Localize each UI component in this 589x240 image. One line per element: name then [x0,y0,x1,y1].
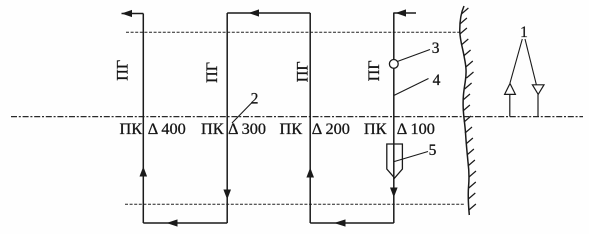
svg-text:ПК: ПК [364,119,387,138]
svg-text:2: 2 [251,91,259,108]
svg-text:4: 4 [433,72,441,89]
svg-text:5: 5 [429,142,437,159]
svg-text:ПК: ПК [201,119,224,138]
svg-text:1: 1 [520,24,528,41]
svg-text:Δ 300: Δ 300 [228,119,266,138]
svg-text:ПГ: ПГ [294,61,311,82]
svg-text:ПК: ПК [280,119,303,138]
svg-text:Δ 200: Δ 200 [312,119,350,138]
svg-text:Δ 400: Δ 400 [148,119,186,138]
svg-text:Δ 100: Δ 100 [397,119,435,138]
svg-text:ПГ: ПГ [115,60,132,81]
svg-text:ПГ: ПГ [204,62,221,83]
svg-text:3: 3 [432,40,440,57]
svg-text:ПК: ПК [120,119,143,138]
svg-text:ПГ: ПГ [366,60,383,81]
